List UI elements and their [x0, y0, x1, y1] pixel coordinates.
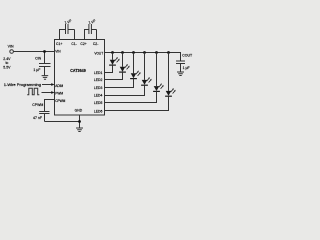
LED3: [105, 51, 141, 87]
capacitor CIN: [39, 52, 51, 76]
svg-text:VIN: VIN: [8, 45, 14, 49]
svg-text:47 nF: 47 nF: [33, 116, 42, 120]
text labels: [3, 19, 193, 120]
svg-text:COUT: COUT: [182, 54, 193, 58]
IC U1 CAT3649 box: [55, 40, 105, 116]
wire GND pin: [79, 115, 81, 128]
LED1: [105, 51, 120, 72]
wire PWM arrow line: [42, 92, 52, 94]
wire ADIM arrow line: [42, 84, 52, 86]
LED4: [105, 51, 152, 95]
svg-text:C1-: C1-: [71, 42, 76, 46]
terminal VIN circle: [10, 50, 14, 54]
wire C1- stub: [68, 30, 75, 40]
svg-text:LED4: LED4: [94, 93, 103, 97]
wire C2- stub: [91, 30, 96, 40]
svg-text:LED6: LED6: [94, 109, 103, 113]
svg-text:to: to: [5, 61, 8, 65]
PWM waveform symbol: [27, 88, 39, 94]
svg-text:PWM: PWM: [55, 91, 63, 95]
LED6: [105, 51, 176, 110]
svg-text:1-Wire Programming: 1-Wire Programming: [4, 83, 41, 87]
svg-text:LED1: LED1: [94, 71, 103, 75]
svg-text:LED3: LED3: [94, 86, 103, 90]
wire VOUT rail: [105, 53, 181, 62]
wire VIN input: [14, 51, 55, 53]
capacitor CPWM 47nF: [39, 112, 49, 122]
svg-text:CAT3649: CAT3649: [70, 68, 86, 73]
svg-text:C1+: C1+: [56, 42, 62, 46]
arrowhead ADIM: [51, 83, 54, 86]
svg-text:C2+: C2+: [80, 42, 86, 46]
ground GND: [76, 128, 83, 132]
svg-text:CPWM: CPWM: [32, 103, 43, 107]
svg-text:CIN: CIN: [35, 57, 42, 61]
svg-text:LED2: LED2: [94, 78, 103, 82]
capacitor COUT: [176, 61, 185, 72]
svg-text:1 μF: 1 μF: [183, 66, 190, 70]
wire ground bus to GND: [45, 121, 80, 123]
svg-text:VOUT: VOUT: [94, 52, 103, 56]
capacitor C2: [89, 24, 92, 34]
svg-text:ADIM: ADIM: [55, 84, 63, 88]
svg-text:CPWM: CPWM: [55, 99, 65, 103]
svg-text:GND: GND: [75, 109, 83, 113]
ground COUT: [177, 72, 184, 76]
LED2: [105, 51, 130, 79]
capacitor C1: [66, 24, 69, 34]
ground CIN: [42, 76, 49, 80]
svg-text:C2-: C2-: [93, 42, 98, 46]
arrowhead PWM: [51, 91, 54, 94]
svg-text:LED5: LED5: [94, 101, 103, 105]
LED5: [105, 51, 164, 102]
svg-text:VIN: VIN: [55, 49, 61, 53]
wire CPWM: [45, 100, 55, 112]
svg-text:1 μF: 1 μF: [33, 68, 40, 72]
svg-text:5.5V: 5.5V: [3, 66, 11, 70]
wire C1+ stub: [60, 30, 66, 40]
node CIN tap: [43, 50, 46, 53]
wire C2+ stub: [85, 30, 89, 40]
node GND junction: [78, 120, 81, 123]
